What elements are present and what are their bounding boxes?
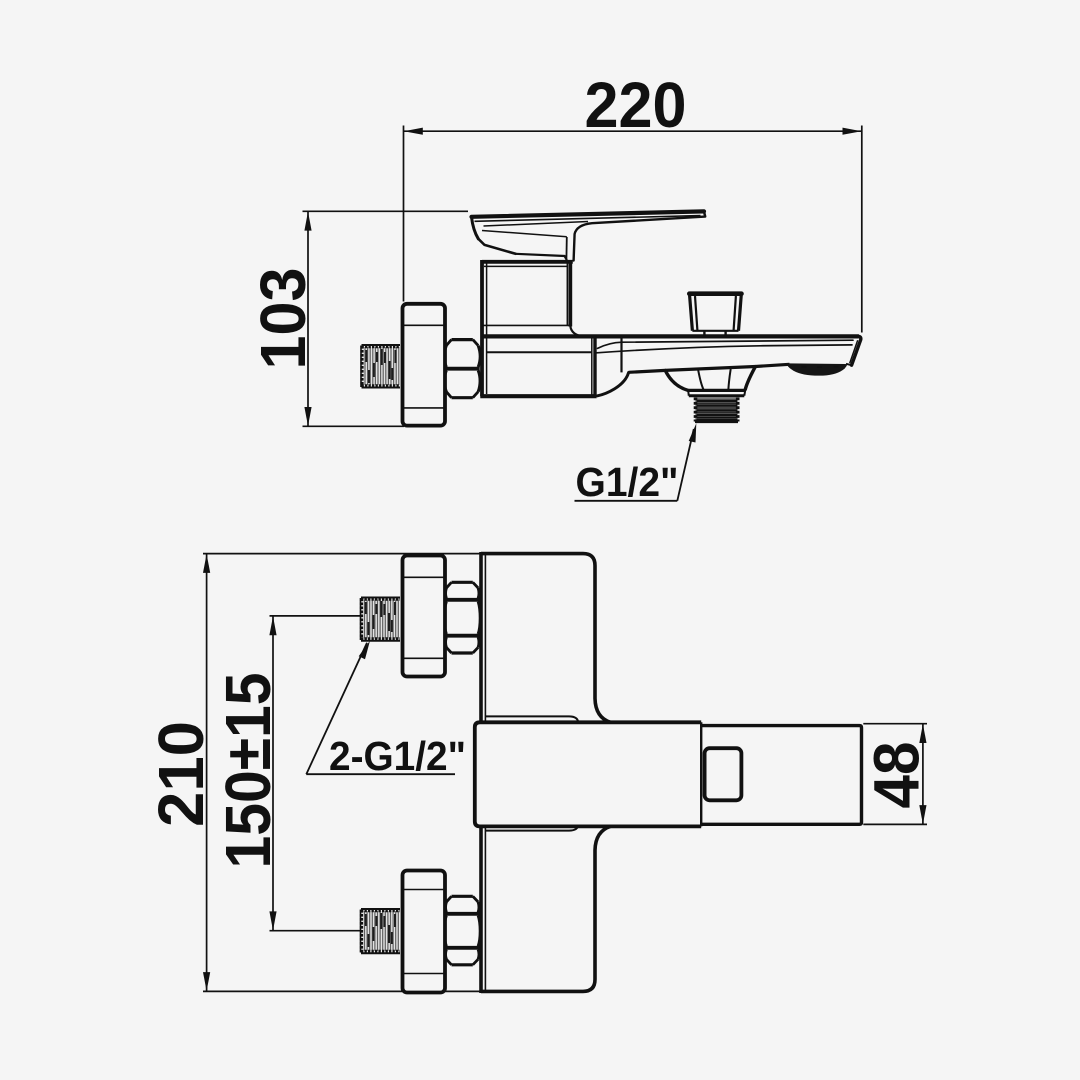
dimension 103 extension line top [303, 210, 469, 212]
dimension 150±15 arrow top [269, 616, 276, 635]
threaded outlet G1/2 (top drawing) [695, 397, 738, 422]
dimension 48 extension line top [863, 723, 927, 725]
dimension 210 arrow top [203, 554, 210, 573]
dimension 150±15 arrow bottom [269, 911, 276, 930]
svg-text:48: 48 [861, 742, 933, 809]
svg-text:G1/2": G1/2" [576, 459, 679, 505]
dimension 48 extension line bottom [863, 823, 927, 825]
handle lever (top drawing) [472, 211, 706, 260]
dimension 210 extension line top [203, 553, 481, 555]
dimension 103 arrow top [304, 212, 311, 231]
dimension 220 line [404, 130, 862, 132]
dimension 210 arrow bottom [203, 972, 210, 991]
dimension 220 extension line right [861, 126, 863, 333]
wall plate (bottom view) [481, 552, 611, 993]
svg-text:103: 103 [247, 268, 319, 370]
leader 2-G1/2 line [306, 643, 367, 774]
valve body behind handle (bottom view) [486, 716, 578, 830]
shower outlet boss (top drawing) [665, 367, 755, 396]
dimension 150±15 extension line top [270, 615, 361, 617]
spout (bottom view) [701, 726, 861, 825]
diverter knob (bottom view) [705, 748, 742, 800]
leader G1/2 line [677, 429, 694, 501]
dimension 48 arrow top [919, 724, 926, 743]
svg-text:220: 220 [585, 69, 687, 141]
handle lever (bottom view) [475, 722, 701, 826]
dimension 220 extension line left [403, 126, 405, 302]
dimension 103 arrow bottom [304, 407, 311, 426]
dimension 103 line [307, 211, 309, 426]
threaded nipple bottom (bottom view) [361, 909, 401, 953]
dimension 210 line [206, 554, 208, 992]
svg-text:210: 210 [145, 721, 217, 827]
spout (top drawing) [482, 336, 861, 395]
escutcheon plate bottom (bottom view) [403, 871, 446, 993]
dimension 103 extension line bottom [303, 425, 405, 427]
leader 2-G1/2 underline [306, 773, 455, 775]
leader 2-G1/2 arrowhead [359, 641, 370, 660]
handle/spout divider (bottom view) [700, 722, 702, 826]
svg-text:2-G1/2": 2-G1/2" [329, 733, 466, 779]
dimension 48 arrow bottom [919, 805, 926, 824]
diverter knob (top drawing) [689, 294, 741, 337]
aerator (spout tip, top drawing) [787, 363, 847, 375]
escutcheon plate side view (top drawing) [403, 304, 446, 426]
dimension 220 arrow right [843, 128, 862, 135]
dimension 48 line [922, 724, 924, 825]
faucet body boxes fill (top drawing) [482, 262, 570, 337]
svg-text:150±15: 150±15 [212, 673, 284, 869]
dimension 210 extension line bottom [203, 990, 481, 992]
leader G1/2 underline [575, 500, 678, 502]
threaded nipple side view (top drawing) [361, 345, 400, 388]
threaded nipple top (bottom view) [361, 598, 401, 641]
dimension 150±15 extension line bottom [270, 930, 361, 932]
valve base body (top drawing) [480, 260, 596, 396]
escutcheon plate top (bottom view) [403, 556, 446, 677]
hex nut bottom (bottom view) [444, 896, 480, 965]
cartridge housing (top drawing) [482, 262, 583, 337]
leader G1/2 arrowhead [689, 423, 697, 442]
hex nut top (bottom view) [444, 582, 480, 653]
dimension 150±15 line [272, 616, 274, 931]
hex nut side view (top drawing) [444, 340, 480, 398]
dimension 220 arrow left [404, 128, 423, 135]
